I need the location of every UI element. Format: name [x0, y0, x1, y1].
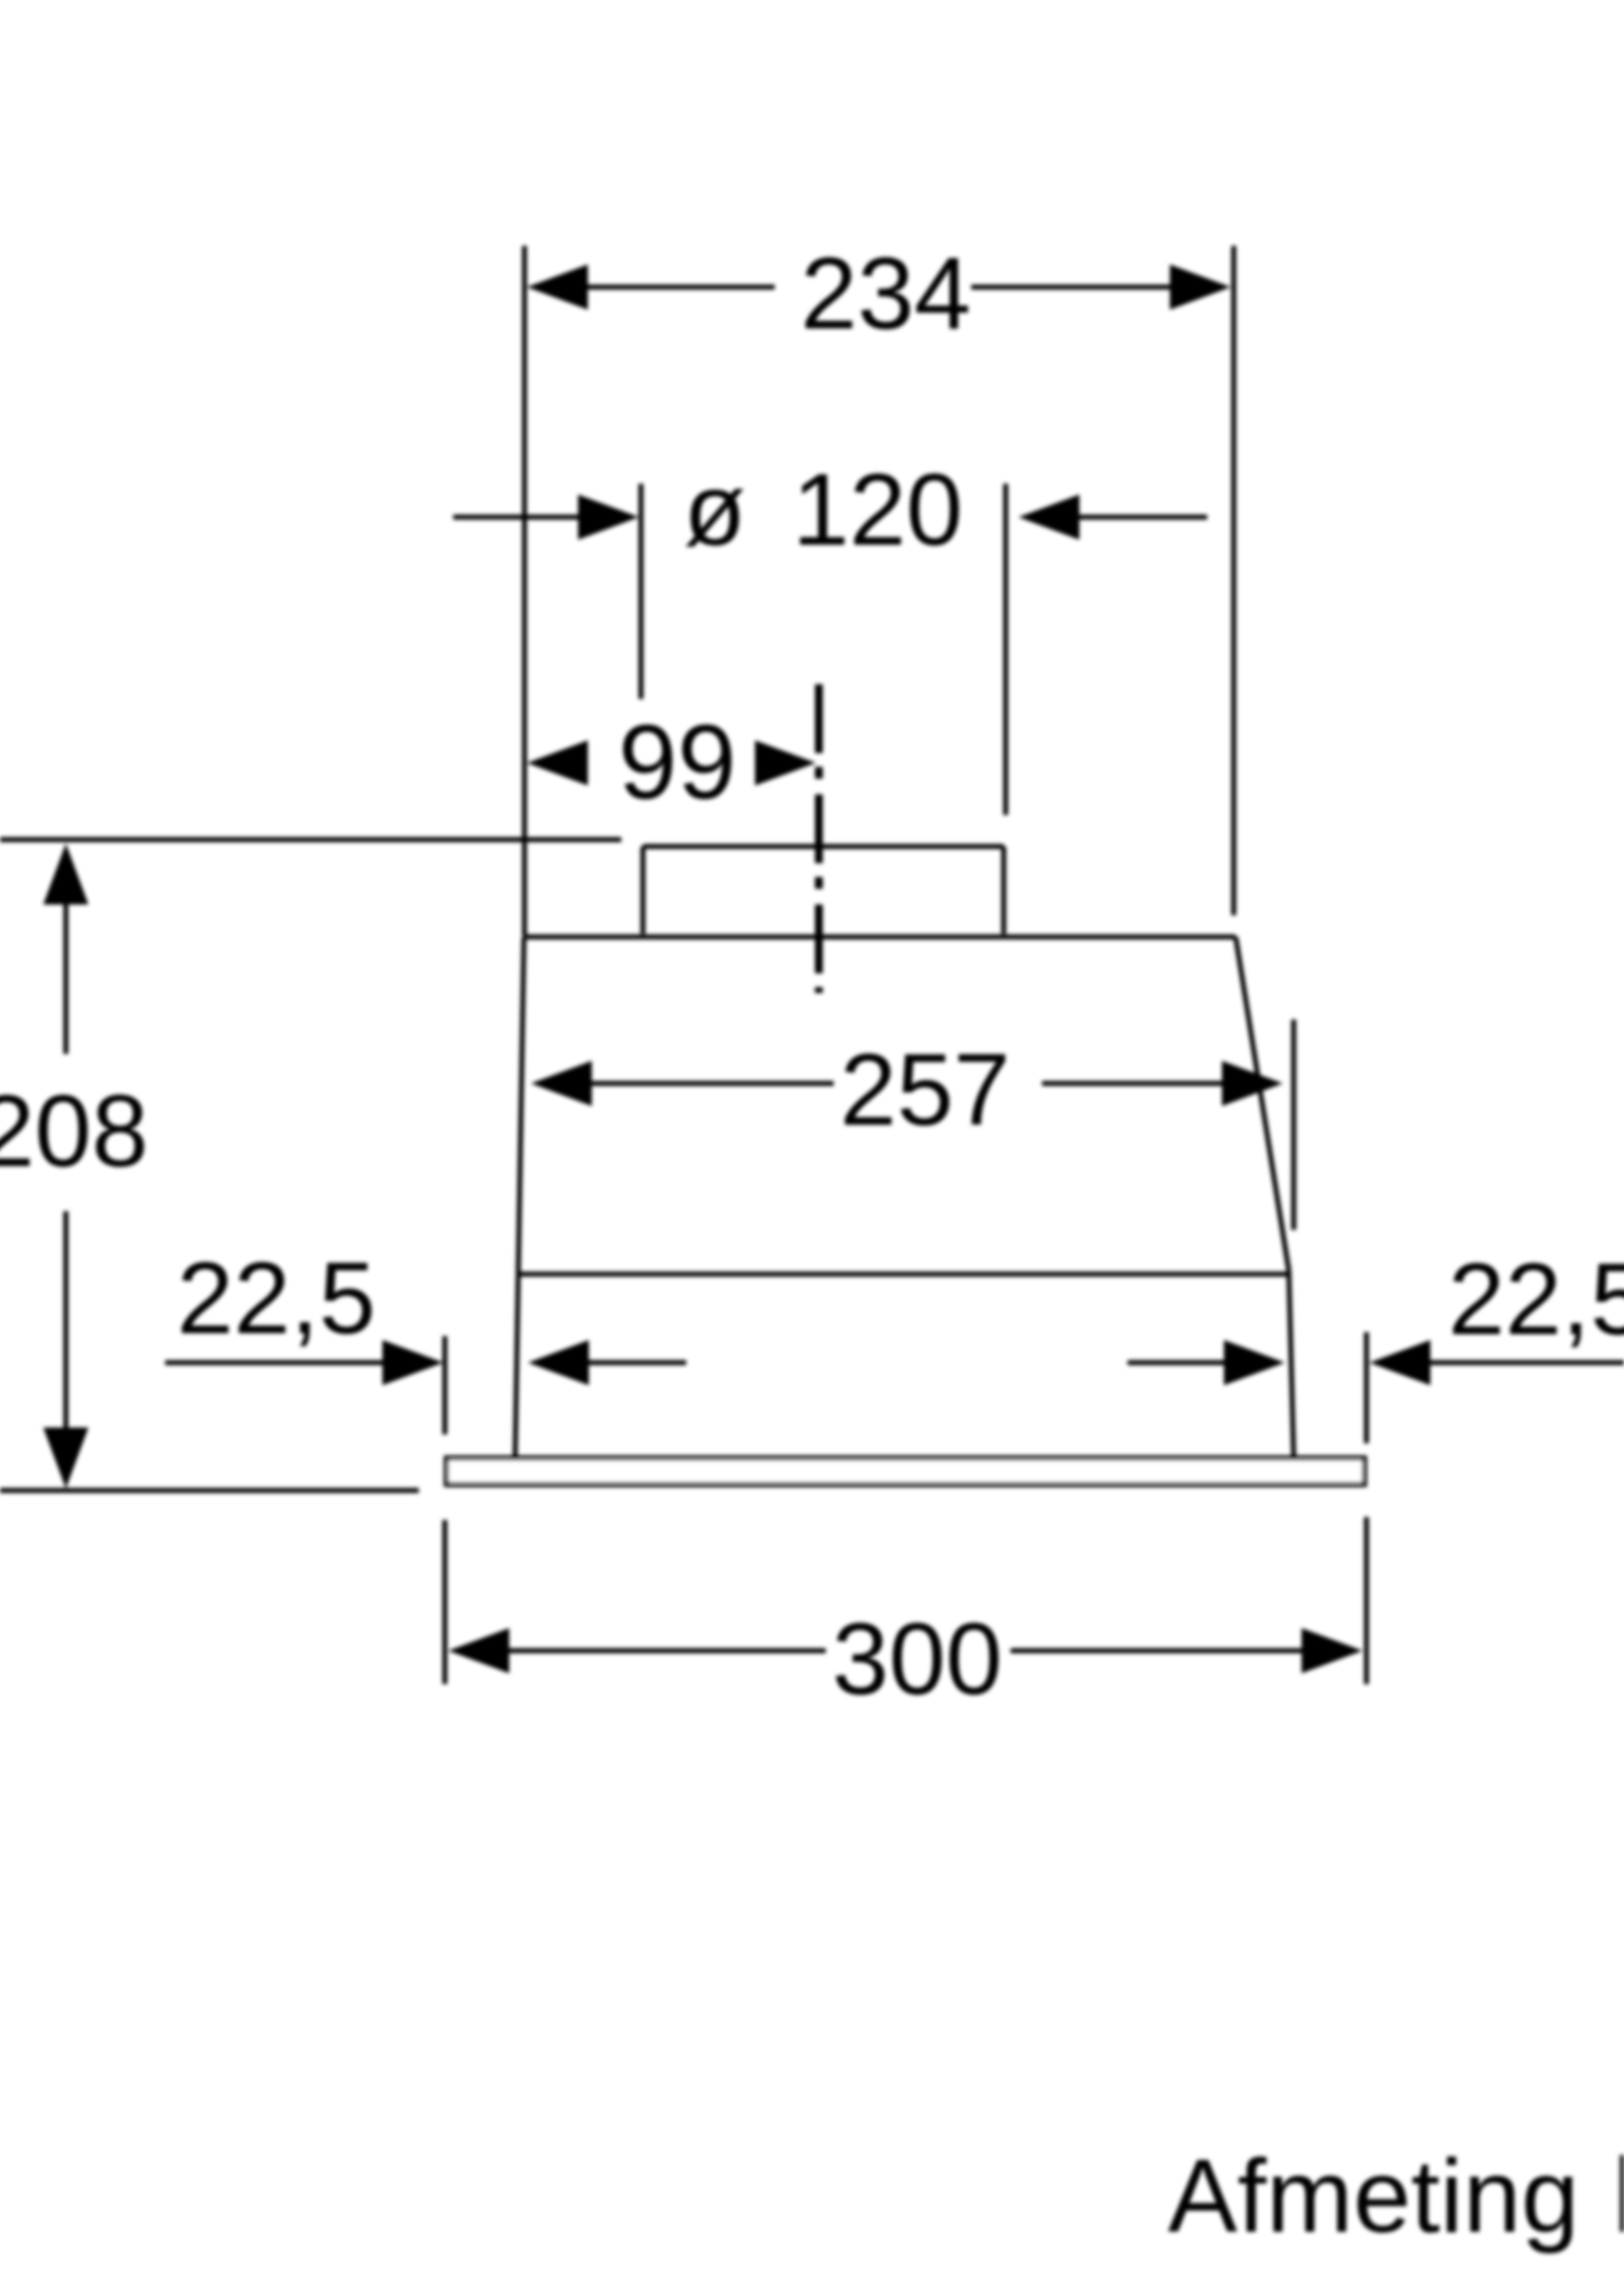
mounting plate: [446, 1458, 1364, 1485]
dimension line 22,5 left: [165, 1361, 382, 1366]
arrowhead 22,5 right: [1369, 1340, 1430, 1385]
svg-text:22,5: 22,5: [177, 1242, 376, 1356]
arrowhead 300 right: [1302, 1628, 1363, 1673]
arrowhead 234 right: [1170, 264, 1231, 310]
svg-text:234: 234: [800, 237, 971, 351]
arrowhead 234 left: [527, 264, 588, 310]
duct collar top edge: [643, 845, 1004, 849]
dimension line ø120 right tail: [1079, 515, 1207, 520]
dimension line 234 left segment: [587, 285, 775, 290]
extension line plate right upper: [1364, 1332, 1369, 1443]
hood body left edge: [515, 937, 524, 1458]
arrowhead inner right: [1224, 1340, 1285, 1385]
arrowhead 208 down: [43, 1428, 88, 1488]
extension line left (234 / body left): [522, 246, 527, 936]
extension line plate right lower: [1364, 1517, 1369, 1684]
dimension line 208 upper segment: [64, 903, 69, 1054]
svg-text:ø: ø: [683, 453, 746, 567]
arrowhead 257 left: [531, 1061, 592, 1106]
arrowhead 257 right: [1222, 1061, 1283, 1106]
ceiling line bottom left: [0, 1488, 419, 1493]
duct collar right edge: [1002, 846, 1007, 934]
dimension line 22,5 right: [1430, 1361, 1624, 1366]
center line dash-dot: [815, 684, 823, 993]
arrowhead 300 left: [448, 1628, 509, 1673]
dimension line 257 left segment: [590, 1081, 834, 1086]
arrowhead 208 up: [43, 844, 88, 904]
ceiling line top left: [0, 838, 621, 843]
arrowhead 99 left: [527, 740, 588, 786]
extension line plate left upper: [442, 1336, 447, 1434]
dimension line 300 right segment: [1011, 1649, 1302, 1654]
arrowhead inner left: [528, 1340, 589, 1385]
svg-text:Afmeting: Afmeting: [1168, 2138, 1579, 2254]
arrowhead ø120 left: [578, 495, 639, 540]
extension line right (234): [1232, 246, 1237, 915]
dimension line 234 right segment: [971, 285, 1171, 290]
svg-text:208: 208: [0, 1075, 148, 1189]
svg-text:120: 120: [792, 453, 963, 567]
arrowhead 22,5 left: [382, 1340, 443, 1385]
hood body middle line: [517, 1272, 1289, 1277]
dimension line 300 left segment: [509, 1649, 826, 1654]
duct collar left edge: [641, 846, 646, 934]
svg-text:22,5: 22,5: [1448, 1243, 1624, 1357]
extension tick ø120 left: [639, 484, 644, 699]
extension line 257 right: [1292, 1020, 1297, 1230]
extension tick ø120 right: [1004, 484, 1009, 815]
extension line plate left lower: [442, 1520, 447, 1684]
inner dimension right tail: [1128, 1361, 1224, 1366]
inner dimension left tail: [589, 1361, 686, 1366]
dimension line 208 lower segment: [64, 1211, 69, 1431]
svg-text:257: 257: [840, 1033, 1011, 1147]
hood body right slanted edge: [1236, 937, 1289, 1270]
arrowhead ø120 right: [1018, 495, 1079, 540]
letter fragment at right edge: [1620, 2155, 1624, 2232]
dimension line 257 right segment: [1042, 1081, 1222, 1086]
arrowhead 99 right: [755, 740, 816, 786]
svg-text:300: 300: [832, 1603, 1003, 1717]
hood body top edge: [524, 935, 1236, 940]
hood body lower right edge: [1289, 1270, 1294, 1458]
dimension line ø120 left tail: [453, 515, 580, 520]
svg-text:99: 99: [618, 702, 736, 821]
